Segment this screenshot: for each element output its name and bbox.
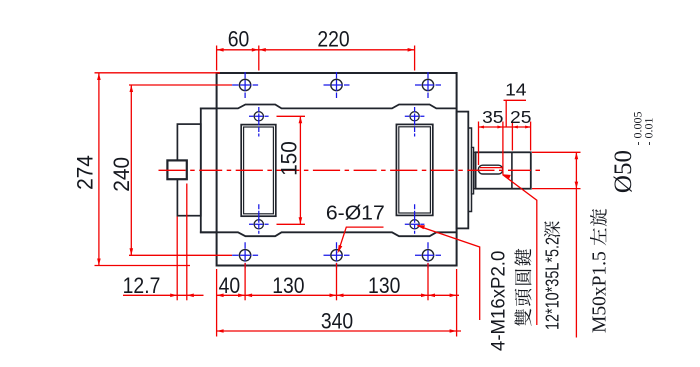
CJK char 深 xyxy=(544,221,560,238)
ext at hole B1 column xyxy=(244,263,246,300)
left bearing cap xyxy=(177,124,200,216)
tapped hole T4 xyxy=(410,220,419,229)
tapped hole T2 xyxy=(410,112,419,121)
right shaft shoulder xyxy=(474,152,476,188)
svg-text:220: 220 xyxy=(317,28,349,52)
ext 274 top xyxy=(95,72,221,74)
crosshair T3 xyxy=(249,223,269,225)
thread boundary line xyxy=(511,152,513,188)
tapped hole T3 xyxy=(254,220,263,229)
14 leader vertical xyxy=(505,100,507,127)
ext 35 left xyxy=(478,122,480,166)
bolt hole A3 xyxy=(422,79,433,90)
CJK char 頭 xyxy=(515,289,532,306)
dim O50 ext top xyxy=(532,151,581,153)
arrows 340 xyxy=(217,329,224,333)
svg-text:130: 130 xyxy=(368,274,400,298)
keyway window 2 outer xyxy=(396,124,432,215)
svg-text:- 0.01: - 0.01 xyxy=(642,118,656,146)
14 label bar xyxy=(504,99,527,101)
svg-text:14: 14 xyxy=(505,79,526,99)
keyway window 1 outer xyxy=(241,125,276,217)
svg-text:6-Ø17: 6-Ø17 xyxy=(326,202,385,224)
ext 240 top xyxy=(129,84,232,86)
arrow leader key xyxy=(502,174,511,178)
dim line 274 xyxy=(98,73,100,266)
ext at thread line xyxy=(511,122,513,151)
dim line 40/130/130 xyxy=(217,294,459,296)
svg-text:35: 35 xyxy=(482,107,503,127)
crosshair B1 xyxy=(232,254,258,256)
right seal ring xyxy=(472,147,474,194)
crosshair A1 xyxy=(232,84,258,86)
CJK char 圓 xyxy=(515,269,532,285)
left shaft square end xyxy=(167,160,186,179)
arrows 60/220 xyxy=(217,48,224,52)
ext 150 bottom xyxy=(277,223,306,225)
crosshair T4 xyxy=(405,223,425,225)
bolt hole A2 xyxy=(331,79,342,90)
arrow leader 6-O17 xyxy=(338,245,343,254)
svg-text:274: 274 xyxy=(73,155,98,190)
bolt hole A1 xyxy=(239,79,250,90)
right bearing cap ring xyxy=(468,128,471,212)
ext at hole B2 column xyxy=(336,263,338,300)
leader 4-M16 xyxy=(418,226,480,320)
svg-text:4-M16xP2.0: 4-M16xP2.0 xyxy=(487,251,508,351)
ext 12.7 left xyxy=(176,217,178,301)
bolt hole B2 xyxy=(331,250,342,261)
svg-text:12.7: 12.7 xyxy=(123,274,161,298)
svg-text:150: 150 xyxy=(277,141,302,176)
crosshair A3 xyxy=(415,84,441,86)
leader key spec xyxy=(503,175,537,325)
ext 340 left (plate corner down) xyxy=(216,269,218,337)
ext at hole B3 column xyxy=(427,263,429,300)
svg-text:340: 340 xyxy=(321,309,353,333)
svg-text:40: 40 xyxy=(219,274,241,298)
ext 150 top xyxy=(277,115,306,117)
bolt hole B1 xyxy=(239,250,250,261)
arrows 150 xyxy=(299,116,303,123)
arrows 240 xyxy=(130,85,134,92)
svg-text:130: 130 xyxy=(272,274,304,298)
dim line 35/25 xyxy=(479,126,531,128)
dim line O50 xyxy=(575,152,577,337)
ext line top at T1 column xyxy=(258,46,260,71)
ext 25 right xyxy=(530,122,532,151)
CJK char 鍵 xyxy=(514,249,531,266)
CJK char 左 xyxy=(590,228,606,245)
crosshair A2 xyxy=(324,84,350,86)
housing bottom edge with bosses xyxy=(201,232,457,236)
ext 240 bottom xyxy=(129,254,232,256)
main horizontal centerline xyxy=(159,169,542,171)
left housing protrusion xyxy=(201,108,217,232)
key slot on shaft xyxy=(478,165,503,174)
CJK char 雙 xyxy=(514,309,531,326)
svg-text:Ø50: Ø50 xyxy=(610,150,637,193)
mounting plate outline xyxy=(217,73,457,266)
crosshair B3 xyxy=(415,254,441,256)
right housing protrusion xyxy=(457,112,469,229)
keyway window 2 inner xyxy=(399,127,431,213)
arrow leader 4-M16 xyxy=(417,225,426,229)
arrows 35/25 xyxy=(479,126,485,129)
crosshair T2 xyxy=(405,115,425,117)
crosshair B2 xyxy=(324,254,350,256)
arrows 12.7 outside xyxy=(170,294,177,298)
ext 340 right xyxy=(456,269,458,337)
crosshair T1 xyxy=(249,115,269,117)
dim line 240 xyxy=(130,85,132,255)
ext 12.7 right xyxy=(186,184,188,301)
ext 274 bottom xyxy=(95,265,191,267)
svg-text:12*10*35L*5.2: 12*10*35L*5.2 xyxy=(542,237,563,330)
arrows 40/130/130 xyxy=(217,294,224,298)
dim line 340 xyxy=(217,330,461,332)
ext line top at plate corner xyxy=(216,46,218,71)
arrows O50 xyxy=(575,152,579,159)
arrows 274 xyxy=(97,73,101,80)
key slot center mark xyxy=(480,167,502,169)
tapped hole T1 xyxy=(254,112,263,121)
housing top edge with bosses xyxy=(201,105,457,109)
CJK char 旋 xyxy=(590,209,607,226)
dim O50 ext bottom xyxy=(532,188,581,190)
svg-text:60: 60 xyxy=(228,28,250,52)
bolt hole B3 xyxy=(422,250,433,261)
dim line 12.7 xyxy=(123,294,204,296)
dim line 60/220 xyxy=(217,49,415,51)
leader 6-O17 xyxy=(339,227,384,251)
output shaft xyxy=(476,152,531,188)
dim line 150 xyxy=(299,116,301,224)
keyway window 1 inner xyxy=(244,127,274,214)
svg-text:240: 240 xyxy=(110,157,135,192)
svg-text:M50xP1.5: M50xP1.5 xyxy=(590,251,611,333)
svg-text:25: 25 xyxy=(510,107,531,127)
ext 35/25 middle, also 14 ext xyxy=(502,122,504,175)
ext line top at T2 column xyxy=(414,46,416,71)
